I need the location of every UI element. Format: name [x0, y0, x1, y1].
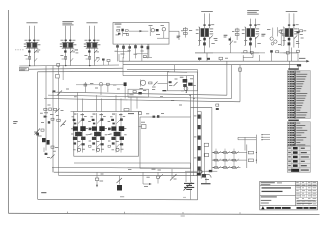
ignition coil P2	[63, 43, 74, 48]
resistor R46	[45, 153, 48, 155]
stub to table 2	[262, 136, 270, 138]
capacitor T1	[203, 42, 206, 45]
wire R30 to K3	[158, 82, 168, 84]
cable tie 1	[198, 115, 201, 119]
wire bus to table a	[288, 61, 290, 68]
capacitor C11	[126, 33, 128, 35]
matrix column wire 2	[224, 149, 226, 168]
border frame left edge	[7, 10, 9, 213]
rail wire y95	[48, 95, 231, 99]
wire drop 47	[45, 66, 47, 151]
breaker points T1	[203, 38, 206, 41]
label T1	[201, 10, 213, 13]
drawing number bold	[297, 207, 303, 209]
switch S11	[215, 152, 218, 154]
border frame bottom edge	[8, 213, 319, 214]
bus wire B+ upper	[119, 60, 307, 62]
capacitor C45	[48, 121, 50, 123]
border tick mark 4	[239, 212, 241, 214]
riser for regulator line	[122, 65, 124, 76]
wire C21 drop	[287, 54, 289, 61]
rotor circle D1c	[271, 43, 274, 46]
title row3 text b	[261, 199, 272, 202]
output dev B	[96, 148, 99, 151]
breaker points T2	[249, 38, 252, 41]
arrow mark D4	[35, 129, 41, 135]
rail wire y172	[54, 171, 198, 173]
wire bus to table b	[297, 65, 299, 69]
label net 30 left border	[13, 120, 17, 123]
amp channel B wires	[96, 113, 98, 153]
wire U1 bottom	[157, 37, 169, 39]
title row3 text c	[261, 202, 269, 205]
wire P3 secondary	[93, 26, 95, 66]
label bus B+	[299, 57, 305, 60]
sensor J10	[96, 172, 98, 178]
battery BT1	[185, 172, 187, 182]
wire upper ladder right	[244, 137, 246, 150]
title line 1	[262, 187, 292, 188]
wire corner x53 to rail	[52, 168, 54, 173]
inline connector pair a	[216, 104, 219, 106]
wire P1 primary	[29, 26, 31, 66]
contact breaker P2	[64, 50, 66, 52]
matrix row wire 2	[212, 159, 241, 161]
title block divider row1	[260, 185, 318, 187]
label P1	[26, 21, 37, 24]
switch S1 between T1 T2	[224, 34, 228, 37]
title block sig rows	[296, 183, 318, 185]
resistor network R40	[44, 108, 47, 110]
resistor R11	[125, 30, 128, 32]
connector sleeve on riser x238	[239, 68, 242, 71]
ignition coil P1	[27, 43, 38, 48]
diode D7	[55, 109, 60, 113]
terminal tick T2 b	[254, 24, 256, 25]
switch S21	[215, 159, 218, 161]
resistor R50 right of box	[142, 125, 147, 129]
bus riser left b	[122, 57, 124, 65]
wire U1 internal	[129, 30, 148, 32]
dashed test lead	[15, 49, 25, 51]
rail riser x227	[226, 61, 228, 95]
wire T1 up a	[204, 13, 206, 28]
nested line inner	[127, 68, 198, 70]
line to regulator	[123, 75, 194, 77]
ground strap mark	[201, 183, 211, 184]
wire T2 bottom link	[241, 52, 259, 54]
resistor R45	[44, 116, 47, 118]
wire below U1	[148, 44, 150, 57]
resistors A lower	[73, 142, 76, 144]
wire U1 output	[169, 30, 179, 32]
wire T1 up b	[208, 13, 210, 28]
title row1 text	[261, 181, 275, 184]
annotation near box bottom	[120, 195, 124, 198]
wire T1 bottom link	[195, 52, 213, 54]
wire T3 down b	[293, 37, 295, 48]
wire P2 primary	[65, 26, 67, 66]
switch S23	[233, 159, 236, 161]
resistor R30	[149, 82, 152, 84]
wire matrix feed	[185, 170, 217, 172]
amp channel B input parts	[93, 113, 96, 116]
bus wire 15 extension	[169, 71, 187, 74]
wire matrix right riser	[246, 145, 248, 169]
wire link above amp box	[76, 84, 124, 86]
transistor Q10	[151, 29, 154, 32]
wire stub into U2 ch C a	[115, 95, 117, 111]
label P3	[86, 21, 97, 24]
diode D2	[52, 90, 55, 92]
terminal on box edge	[36, 133, 39, 136]
relay case right of ladder a	[204, 143, 208, 146]
magneto core T2	[245, 27, 247, 45]
wire T2 drop	[242, 55, 244, 61]
resistor R10	[117, 29, 120, 31]
table header bar 1	[288, 68, 299, 69]
wire X5 stub	[206, 170, 212, 172]
wire drop x197	[197, 70, 199, 112]
capacitor C10	[121, 29, 123, 32]
cable ladder wire b	[200, 112, 202, 179]
switch S13	[233, 152, 236, 154]
wire T2 down a	[250, 37, 252, 53]
group link wire right	[284, 52, 298, 54]
wire riser x256	[255, 135, 257, 164]
comp on aux box top b	[157, 115, 159, 118]
wire drop 53	[52, 65, 54, 172]
capacitor T2	[249, 42, 252, 45]
border tick mark 3	[182, 212, 184, 214]
wire T3 down a	[288, 37, 290, 53]
company name bold	[267, 207, 274, 209]
transistor Q5	[183, 79, 188, 83]
wire T3 to bus	[291, 48, 293, 62]
wire main box left edge	[37, 72, 39, 200]
stub to table 3	[262, 139, 270, 141]
wire Q6 emitter	[43, 148, 45, 153]
rail annotation specks mid	[152, 88, 155, 91]
rail riser x238	[239, 65, 241, 102]
condenser C-P1	[29, 56, 31, 59]
condenser C-P3	[89, 56, 91, 59]
wire T2 down b	[254, 37, 256, 48]
rail wire y92	[57, 92, 227, 95]
amp channel C input parts	[112, 113, 115, 116]
rail wire y167	[52, 166, 191, 169]
rung y140	[238, 139, 256, 141]
rail annotation specks	[128, 168, 131, 171]
wire drop x190 battery	[190, 163, 192, 182]
regulator relay K1	[140, 80, 145, 85]
capacitor C20	[270, 50, 273, 52]
resistor R-P2b	[69, 40, 71, 42]
cable tie 3	[198, 136, 201, 140]
rail wire y163	[74, 162, 191, 164]
title block frame	[260, 181, 318, 210]
magneto coil T1	[201, 28, 209, 37]
resistor R-P2a	[65, 40, 67, 42]
cap contact D1	[279, 30, 282, 32]
wire T2 up a	[250, 19, 252, 29]
net label box 30	[19, 68, 28, 71]
wire R23 drop	[297, 52, 299, 61]
main box bottom edge	[38, 198, 198, 201]
magneto core T1	[199, 27, 201, 45]
terminal cluster right of P3 b	[107, 60, 110, 62]
wire stub into U2 ch C b	[120, 99, 122, 112]
amp channel C wires	[115, 113, 117, 153]
terminal bits T3 right	[300, 30, 303, 32]
label P2	[62, 20, 73, 23]
output dev A	[77, 148, 80, 151]
resistor R71	[248, 159, 253, 162]
resistor R20 on bus	[244, 51, 247, 53]
diode D6	[174, 82, 178, 86]
title line 2	[262, 191, 283, 192]
title block divider bottom	[260, 205, 318, 207]
switch S31	[215, 167, 218, 169]
resistor R44	[51, 146, 54, 148]
terminal strip X1	[116, 45, 119, 47]
legend table	[287, 146, 310, 172]
condenser C-P2	[65, 56, 67, 59]
wire matrix top left	[237, 137, 239, 140]
sheet number below border	[181, 215, 185, 218]
terminal above box right	[139, 112, 142, 115]
bus wire 30 left	[19, 65, 119, 66]
wire amp box top extension	[71, 111, 74, 113]
arrow mark R30	[154, 82, 158, 86]
resistor R-P3b	[93, 40, 95, 42]
main box corner tick	[183, 196, 186, 198]
bus component b	[207, 58, 210, 60]
bus component a	[198, 58, 201, 60]
rotor circle D1a	[270, 37, 273, 40]
terminal tick T3 a	[288, 24, 290, 25]
resistor R33	[84, 84, 87, 86]
wire T3 up b	[293, 13, 295, 28]
contact breaker P3	[88, 50, 90, 52]
matrix column wire 3	[233, 149, 235, 168]
resistor R22	[276, 51, 279, 53]
small box K2	[128, 89, 149, 97]
wire C20 drop	[271, 53, 273, 62]
label T3	[286, 10, 298, 13]
wire R20 drop	[259, 55, 261, 61]
fuse F0	[57, 63, 60, 66]
inline connector pair b	[216, 108, 219, 110]
rail riser x231	[230, 65, 232, 99]
capacitor T3	[288, 42, 291, 45]
arrowhead bus B+	[306, 60, 309, 63]
wire stub into U2 ch A a	[77, 92, 79, 111]
wire T2 to bus	[252, 53, 254, 58]
resistor R42	[57, 119, 60, 121]
rotor circle D1b	[274, 40, 277, 43]
switch S22	[224, 159, 227, 161]
title block vertical divider	[295, 181, 297, 205]
wire T3 up a	[288, 13, 290, 28]
wire T1 down a	[204, 37, 206, 53]
cable tie 2	[198, 125, 201, 129]
label main box bottom left	[41, 192, 46, 193]
diode D8	[51, 155, 55, 159]
resistor R-P1a	[29, 40, 31, 42]
relay case right of ladder b	[204, 153, 208, 156]
bus wire 51 left	[29, 68, 124, 69]
wire stub into U2 ch B b	[101, 99, 103, 112]
table header bar 2	[288, 120, 299, 121]
bus component c	[219, 57, 223, 59]
switch S32	[224, 167, 227, 169]
resistor R34	[107, 83, 110, 85]
pickup coil L2	[235, 29, 239, 31]
resistor R23	[297, 50, 300, 52]
amp channel A wires	[77, 113, 79, 153]
title row3 text a	[261, 196, 277, 197]
wire drop x194	[193, 76, 195, 176]
regulator box K3	[168, 72, 198, 91]
wire stub into U2 ch A b	[82, 99, 84, 112]
switch S5	[171, 169, 173, 178]
rail wire y98	[44, 99, 240, 102]
terminal cluster right of P3 a	[102, 59, 105, 61]
pickup coil L1	[183, 28, 187, 30]
cable ladder wire a	[196, 112, 198, 179]
magneto coil T2	[247, 28, 255, 37]
resistor R60	[157, 176, 160, 178]
transistor pair B	[92, 126, 97, 130]
amp channel A input parts	[74, 113, 77, 116]
inter-channel parts BC	[108, 120, 111, 123]
pulley circle on ladder	[200, 170, 203, 173]
connector lug X6	[209, 170, 212, 172]
label T1 left	[177, 35, 181, 38]
wire drops below K2	[130, 97, 132, 111]
terminal tick T1 b	[208, 24, 210, 25]
rail wire y107	[191, 106, 212, 108]
distributor group D1	[261, 33, 265, 36]
aux box right of amp	[140, 117, 191, 168]
diode D5	[297, 64, 301, 66]
capacitor C30	[99, 82, 103, 86]
rail junction dots	[186, 92, 187, 93]
cable tie 6	[198, 167, 201, 171]
motor symbol M1	[162, 28, 165, 31]
junction P1	[29, 65, 30, 66]
wire drop x190	[190, 95, 192, 117]
label U1	[115, 23, 122, 26]
cable tie 4	[198, 146, 201, 150]
wiring table 2	[287, 122, 310, 146]
resistor R21 on bus	[250, 51, 253, 53]
resistors C lower	[112, 142, 115, 144]
transistor pair C	[111, 126, 116, 130]
resistor R43	[41, 129, 44, 131]
wire x204 down	[204, 146, 206, 177]
terminal tick T2 a	[249, 24, 251, 25]
wire ladder top	[197, 111, 201, 113]
rail wire y175	[59, 175, 198, 177]
matrix column wire 1	[215, 149, 217, 168]
wire T3 right vertical	[298, 28, 300, 48]
wire T1 to bus	[206, 53, 208, 61]
output dev C	[116, 148, 119, 151]
logo mark	[261, 206, 264, 209]
wire drop 63	[62, 65, 64, 80]
cap contact T3 right	[297, 31, 300, 33]
capacitor C21	[286, 51, 289, 54]
fuse F1	[56, 74, 60, 78]
capacitor C40 electrolytic	[119, 176, 121, 185]
resistor R41	[51, 118, 54, 120]
wire D1 vertical	[277, 27, 279, 36]
oscillator unit box U1	[113, 23, 169, 45]
main box right edge	[197, 179, 199, 200]
resistor R14	[143, 56, 146, 58]
resistor R70	[248, 151, 253, 154]
label inside amp box	[128, 112, 134, 115]
bus wire B- lower	[123, 64, 298, 66]
wire matrix row2 link	[241, 159, 247, 161]
connector block X5	[197, 173, 201, 176]
meter M2	[205, 174, 212, 177]
group link wire	[195, 52, 265, 54]
matrix row wire 1	[212, 152, 241, 154]
inter-channel parts AB	[88, 120, 91, 123]
wire matrix row1 link	[241, 152, 247, 154]
wire drop 58	[58, 66, 60, 74]
wire riser matrix x212	[211, 107, 213, 150]
stub to table 1	[262, 134, 270, 136]
probe J11	[142, 172, 144, 184]
terminal tick T3 b	[293, 24, 295, 25]
wire stub into K3	[174, 65, 176, 72]
resistors B lower	[92, 142, 95, 144]
switch S33	[233, 167, 236, 169]
wiring table 1	[287, 71, 310, 119]
wire drop x186	[185, 76, 187, 93]
wire battery to box bottom	[190, 189, 192, 199]
capacitor C31 polarized	[124, 82, 127, 86]
label T2	[247, 9, 259, 12]
capacitor C35 above box	[124, 109, 129, 111]
magneto coil T3	[285, 28, 293, 37]
contact breaker P1	[28, 50, 30, 52]
magneto core T3	[283, 27, 285, 45]
wire P2 secondary	[69, 26, 71, 66]
cable tie 5	[198, 157, 201, 161]
matrix row wire 3	[212, 167, 241, 169]
junction P3	[89, 65, 90, 66]
border tick mark 1	[67, 212, 69, 214]
trim pot R13	[118, 33, 120, 35]
wire T2 up b	[254, 19, 256, 29]
comp on aux box top a	[153, 116, 156, 118]
wire P1 secondary	[33, 26, 35, 66]
wire stub into U2 ch B a	[96, 95, 98, 111]
resistor R-P1b	[33, 40, 35, 42]
resistor R-P3a	[89, 40, 91, 42]
transistor Q6	[42, 138, 46, 142]
bus wire 15 left	[38, 70, 169, 73]
rung y137	[238, 136, 256, 138]
border tick mark 2	[124, 212, 126, 214]
amplifier box U2	[74, 112, 139, 157]
junction P2	[65, 65, 66, 66]
